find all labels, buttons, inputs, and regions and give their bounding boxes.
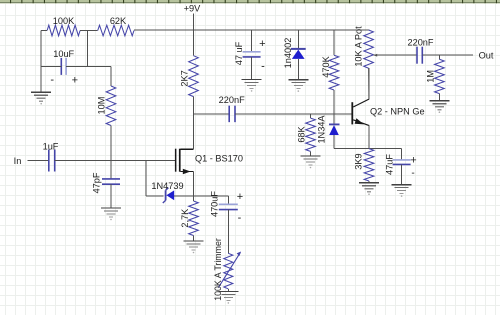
wire cap to base — [235, 113, 351, 115]
wire source — [193, 171, 195, 195]
ground G9 — [359, 183, 379, 195]
svg-text:Q2 - NPN Ge: Q2 - NPN Ge — [370, 107, 425, 117]
wire emitter — [368, 126, 370, 149]
svg-text:+9V: +9V — [184, 4, 201, 14]
wire 10M bottom — [110, 126, 112, 161]
svg-text:220nF: 220nF — [407, 38, 433, 48]
node Out — [479, 51, 494, 61]
resistor 2K7 — [180, 30, 199, 97]
svg-text:220nF: 220nF — [219, 95, 245, 105]
wire 100K-62K junction — [80, 30, 98, 32]
svg-text:-: - — [411, 168, 414, 179]
svg-text:Out: Out — [479, 51, 494, 61]
wire drain to cap — [194, 113, 230, 115]
ground G8 — [301, 156, 321, 168]
resistor 1M — [426, 59, 445, 93]
wire In — [28, 160, 49, 162]
resistor 3K9 — [354, 149, 374, 181]
wire collector — [368, 68, 370, 99]
ground G2 — [101, 208, 121, 220]
svg-text:-: - — [238, 212, 242, 224]
svg-text:62K: 62K — [110, 16, 127, 26]
node In — [14, 156, 22, 166]
capacitor 47 uF — [234, 30, 265, 73]
svg-text:1N34A: 1N34A — [317, 115, 327, 144]
capacitor 1uF — [43, 142, 59, 172]
wire trimmer bottom — [227, 289, 229, 292]
node +9V — [184, 4, 201, 14]
svg-text:10uF: 10uF — [53, 49, 74, 59]
capacitor 470uF — [209, 191, 243, 224]
wire 68K bottom — [310, 151, 312, 156]
svg-text:2,7K: 2,7K — [180, 208, 190, 228]
wire +9V tap — [193, 14, 195, 31]
wire 1N34A bottom — [333, 135, 335, 149]
wire 47pF bottom — [110, 184, 112, 208]
svg-text:+: + — [410, 155, 416, 167]
svg-text:47 uF: 47 uF — [234, 41, 244, 65]
capacitor 47pF — [92, 161, 120, 194]
capacitor 10uF — [50, 49, 78, 87]
svg-text:+: + — [259, 38, 265, 50]
resistor 2,7K — [180, 201, 198, 236]
wire 1n4002 bottom — [297, 59, 299, 80]
wire 2,7K bottom — [193, 236, 195, 242]
wire zener right — [174, 195, 193, 197]
ground G5 — [184, 241, 204, 253]
svg-text:1N4739: 1N4739 — [151, 181, 183, 191]
transistor Q1 — [175, 149, 243, 175]
svg-text:-: - — [50, 74, 54, 86]
resistor 470K — [321, 30, 339, 90]
wire 470uF bottom — [227, 210, 229, 254]
ground G3 — [242, 79, 262, 91]
wire junction drop — [86, 31, 88, 67]
wire drain — [193, 97, 195, 150]
svg-text:+: + — [72, 75, 78, 87]
svg-text:1n4002: 1n4002 — [283, 38, 293, 69]
diode 1n4002 — [283, 30, 306, 68]
wire 100K left lead — [41, 30, 47, 32]
diode 1N4739 — [151, 181, 183, 203]
svg-text:-: - — [261, 61, 265, 73]
svg-text:10K A Pot: 10K A Pot — [354, 26, 364, 67]
svg-text:68K: 68K — [297, 125, 307, 142]
capacitor 220nF A — [219, 95, 245, 122]
transistor Q2 — [351, 99, 424, 126]
wire to 10M — [87, 66, 111, 86]
wire 47uF bottom — [251, 57, 253, 80]
wire 10uF right — [66, 65, 87, 67]
svg-text:10M: 10M — [97, 97, 107, 115]
wire 2,7K top — [193, 196, 195, 201]
potentiometer 10K A Pot — [354, 26, 374, 68]
wire 1M top — [438, 55, 440, 59]
svg-text:470K: 470K — [321, 55, 331, 77]
ground G1 — [31, 92, 51, 104]
resistor 62K — [98, 16, 134, 36]
capacitor 220nF B — [407, 38, 433, 64]
wire +9V rail — [134, 29, 370, 31]
svg-text:In: In — [14, 156, 22, 166]
resistor 10M — [97, 86, 116, 126]
wire 470K bottom — [333, 90, 335, 114]
ground G4 — [288, 80, 308, 92]
svg-text:47uF: 47uF — [385, 154, 395, 175]
svg-text:1uF: 1uF — [43, 142, 59, 152]
wire 3K9 bottom — [368, 181, 370, 183]
svg-text:470uF: 470uF — [209, 191, 219, 217]
wire pot bottom — [368, 68, 370, 99]
svg-text:+: + — [237, 191, 243, 203]
trimmer 100K A — [213, 238, 241, 301]
wire 47uF B bottom — [401, 164, 403, 184]
svg-text:3K9: 3K9 — [354, 153, 364, 169]
ground G6 — [218, 291, 238, 303]
svg-text:2K7: 2K7 — [180, 70, 190, 86]
resistor 100K — [47, 16, 80, 36]
capacitor 47uF B — [385, 149, 417, 179]
diode 1N34A — [317, 114, 340, 144]
wire 1M bottom — [438, 94, 440, 101]
ground G10 — [392, 185, 412, 197]
wire out — [422, 54, 473, 56]
resistor 68K — [297, 118, 316, 151]
wire left drop — [40, 31, 42, 93]
svg-text:Q1 - BS170: Q1 - BS170 — [195, 154, 243, 164]
svg-text:47pF: 47pF — [92, 172, 102, 193]
wire 68K top — [310, 114, 312, 118]
wire gate drop — [145, 161, 147, 196]
wire zener left — [146, 195, 164, 197]
wire wiper — [373, 54, 417, 57]
wire source right — [194, 196, 229, 205]
ground G11 — [429, 101, 449, 113]
wire emitter node — [334, 148, 402, 150]
svg-text:100K: 100K — [53, 16, 75, 26]
wire 10uF left — [41, 65, 61, 67]
wire gate — [55, 160, 175, 162]
svg-text:1M: 1M — [426, 70, 436, 83]
